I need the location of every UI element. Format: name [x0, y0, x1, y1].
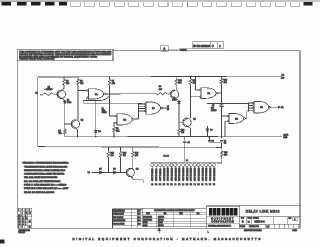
filled sprocket mark right end	[304, 2, 313, 5]
svg-text:PROD D.SMITH: PROD D.SMITH	[113, 223, 124, 225]
title block outline	[112, 209, 114, 228]
svg-text:10-9: 10-9	[138, 223, 141, 225]
svg-text:470: 470	[224, 82, 227, 84]
delay line body DL01	[151, 161, 218, 163]
svg-text:OUT 25 NSEC: OUT 25 NSEC	[152, 168, 154, 181]
resistor R2	[63, 79, 66, 85]
svg-text:C: C	[212, 44, 214, 48]
svg-text:470: 470	[159, 89, 162, 91]
wire cap link	[209, 142, 221, 144]
wire R7 bottom to E1 out node	[109, 85, 111, 94]
svg-text:L4: L4	[186, 160, 188, 162]
resistor R20	[221, 147, 223, 151]
svg-text:OUT 250 NSEC: OUT 250 NSEC	[187, 167, 189, 181]
capacitor C8	[208, 137, 210, 140]
wire D5 to R13	[178, 104, 180, 129]
svg-text:OUT 175 NSEC: OUT 175 NSEC	[175, 167, 177, 181]
svg-text:NUMBER: NUMBER	[253, 218, 259, 220]
delay line tap coil 6	[170, 163, 173, 166]
svg-text:TRANSISTOR & DIODE CONVERSION: TRANSISTOR & DIODE CONVERSION CHART	[154, 209, 196, 212]
delay line tap coil 1	[151, 163, 154, 166]
wire Q3 emitter	[175, 98, 179, 100]
wire E2 output	[134, 118, 139, 120]
nand gate E2b	[200, 89, 201, 90]
svg-text:D3: D3	[98, 131, 100, 133]
diode D5	[178, 100, 180, 103]
wire R4 down to Q2 collector	[77, 85, 79, 121]
svg-text:Q2: Q2	[81, 120, 84, 122]
sign-off grid	[131, 209, 133, 228]
svg-text:A2: A2	[151, 183, 153, 186]
svg-text:OUT 425 NSEC: OUT 425 NSEC	[214, 167, 216, 181]
svg-text:OUT 275 NSEC: OUT 275 NSEC	[191, 167, 193, 181]
wire to D7	[92, 171, 100, 173]
svg-text:OUT 125 NSEC: OUT 125 NSEC	[168, 167, 170, 181]
wire R14 down to diode node	[107, 157, 109, 172]
wire Q5 emitter	[131, 176, 133, 178]
transistor Q4	[183, 118, 192, 127]
wire E2b output	[218, 92, 221, 94]
wire R16 down to Q5 base node	[120, 157, 122, 172]
microfilm connecting line	[168, 48, 193, 51]
wire R20 to delay line end	[221, 157, 223, 164]
svg-text:750: 750	[66, 83, 69, 85]
svg-text:V2: V2	[213, 184, 215, 186]
transistor Q5	[126, 168, 134, 176]
svg-text:C2: C2	[188, 142, 190, 144]
wire Q4 emitter down	[187, 126, 190, 128]
wire R5 to mid rail	[64, 134, 66, 137]
svg-text:OUT 75 NSEC: OUT 75 NSEC	[160, 168, 162, 181]
svg-text:OUT 100 NSEC: OUT 100 NSEC	[164, 167, 166, 181]
svg-text:CODE: CODE	[248, 218, 252, 220]
wire R15 rail	[221, 76, 223, 78]
delay line tap coil 12	[193, 163, 196, 166]
DEC logo square i	[213, 208, 217, 216]
svg-text:N2: N2	[190, 184, 192, 186]
wire E4 output up to E5	[245, 117, 247, 119]
resistor R4	[77, 79, 80, 85]
svg-text:MMFD: MMFD	[211, 110, 217, 112]
svg-text:750: 750	[193, 83, 196, 85]
DEC logo square l	[234, 208, 238, 216]
corner mark	[0, 240, 5, 244]
wire R7 top	[109, 77, 111, 80]
svg-text:10-7: 10-7	[138, 214, 141, 216]
wire R4 to rail	[77, 77, 79, 79]
nand gate E1	[87, 90, 88, 91]
svg-text:i: i	[223, 210, 224, 215]
svg-text:300: 300	[111, 155, 114, 157]
wire C9 to lower rail	[221, 143, 223, 148]
diode D3	[95, 101, 97, 131]
svg-text:DIGITAL EQUIPMENT CORPORATION: DIGITAL EQUIPMENT CORPORATION · MAYNARD.…	[73, 237, 262, 241]
capacitor C2	[184, 136, 185, 137]
nand gate E2	[116, 115, 117, 116]
mid ground rail wire	[65, 135, 282, 138]
wire R12 down to Q4 collector	[190, 85, 192, 119]
svg-text:470: 470	[135, 155, 138, 157]
delay line tap coil 9	[182, 163, 185, 166]
wire R18 down to Q5 collector	[132, 157, 134, 168]
svg-text:OUT 350 NSEC: OUT 350 NSEC	[202, 167, 204, 181]
svg-text:RESISTORS ARE 1/4W; 5%: RESISTORS ARE 1/4W; 5%	[24, 169, 65, 172]
svg-text:OUT 325 NSEC: OUT 325 NSEC	[198, 167, 200, 181]
svg-text:10-8: 10-8	[138, 217, 141, 219]
svg-text:l: l	[235, 210, 236, 215]
delay line tap coil 8	[178, 163, 181, 166]
svg-text:B-DI-M310: B-DI-M310	[193, 44, 210, 48]
delay line tap coil 16	[209, 163, 212, 166]
wire to E2 input 1	[110, 115, 116, 117]
wire to E2b lower input	[191, 96, 200, 98]
wire to E1 input 1	[78, 89, 87, 91]
svg-text:TRANSISTORS ARE DEC2894B: TRANSISTORS ARE DEC2894B	[24, 165, 68, 168]
resistor R10	[175, 79, 178, 85]
wire R6 to mid rail	[113, 132, 115, 137]
diode D6	[206, 126, 208, 129]
svg-text:#3: #3	[48, 89, 50, 91]
resistor R18	[132, 147, 134, 151]
svg-text:OUT 400 NSEC: OUT 400 NSEC	[210, 167, 212, 181]
svg-text:D6: D6	[210, 130, 212, 132]
svg-text:L2: L2	[182, 184, 184, 186]
wire Q4 base	[179, 121, 184, 123]
conversion chart	[142, 208, 206, 227]
wire E4 input 2	[225, 120, 228, 122]
delay line tap coil 10	[185, 163, 188, 166]
diode D1	[64, 99, 66, 102]
microfilm drawing number strip	[193, 42, 224, 48]
node D2 output terminal	[279, 106, 281, 108]
wire E1 node to R8	[110, 93, 157, 95]
wire D6 to mid rail	[206, 131, 208, 136]
resistor R14	[107, 147, 109, 151]
delay line tap coil 17	[212, 163, 215, 166]
svg-text:PRINTED USA IN TOTAL OR IN PAR: PRINTED USA IN TOTAL OR IN PART	[19, 58, 55, 61]
delay line tap coil 5	[166, 163, 169, 166]
svg-text:P2: P2	[194, 184, 196, 186]
wire R2 top to rail	[63, 77, 65, 79]
svg-text:C2: C2	[29, 212, 31, 214]
nand gate E4	[228, 115, 229, 116]
wire Q2 base	[65, 123, 72, 125]
svg-text:M: M	[267, 225, 269, 229]
wire Q1 collector to R2	[62, 88, 64, 90]
svg-text:DEC FORM NO DRB110: DEC FORM NO DRB110	[244, 230, 262, 232]
svg-text:B: B	[22, 227, 23, 229]
svg-text:EQUIPMENT: EQUIPMENT	[211, 219, 234, 221]
resistor R5	[64, 129, 67, 134]
resistor R7	[108, 80, 111, 86]
svg-text:OUT 50 NSEC: OUT 50 NSEC	[156, 168, 158, 181]
wire Q2 emitter to mid rail	[76, 128, 78, 130]
svg-text:DI: DI	[248, 222, 251, 224]
wire rail stub to E2b upper input	[195, 76, 197, 90]
svg-text:U2: U2	[209, 184, 211, 186]
svg-text:F2: F2	[167, 184, 169, 186]
svg-text:PIN 14 ON EACH IC = +5V: PIN 14 ON EACH IC = +5V	[24, 187, 69, 190]
wire D8 to Q5 base	[116, 171, 127, 173]
svg-text:Q5: Q5	[136, 168, 139, 170]
nand gate E3	[146, 102, 161, 114]
wire E3 input taps	[139, 103, 145, 105]
node E3 input stub from bus	[141, 102, 143, 105]
svg-text:B2: B2	[155, 184, 157, 186]
wire E3 output	[162, 107, 166, 109]
svg-text:D8: D8	[113, 169, 115, 171]
wire C2 to delay line input	[184, 143, 186, 163]
svg-text:C2: C2	[22, 221, 24, 223]
+5V rail wire	[38, 75, 282, 78]
node junction R4/E1 input	[77, 90, 78, 91]
film strip top edge line	[0, 0, 320, 2]
DEC logo square g	[217, 208, 221, 216]
svg-text:CORPORATION: CORPORATION	[211, 221, 234, 224]
title section	[238, 205, 240, 228]
microfilm index box A	[161, 46, 168, 52]
svg-text:DL IS DELAY NETWORK: DL IS DELAY NETWORK	[24, 180, 61, 183]
wire D7 to D8	[102, 171, 114, 173]
svg-text:C2: C2	[18, 221, 20, 223]
hollow sprocket marks	[70, 2, 80, 6]
left return wire (vertical)	[37, 77, 39, 147]
wire D3 to mid rail	[95, 133, 97, 137]
wire R15 down through latch output	[221, 84, 223, 106]
capacitor C5	[220, 104, 224, 106]
delay line tap coil 7	[174, 163, 177, 166]
svg-text:i: i	[214, 210, 215, 215]
delay line tap coil 3	[158, 163, 161, 166]
resistor R6	[113, 123, 115, 127]
wire R13 to mid rail	[178, 134, 180, 137]
svg-text:H2: H2	[170, 184, 172, 186]
wire E4 input 1	[222, 115, 228, 117]
svg-text:OUT 150 NSEC: OUT 150 NSEC	[171, 167, 173, 181]
resistor R15	[220, 79, 223, 84]
transistor Q1	[57, 90, 66, 99]
wire E1 feedback lower input	[85, 96, 88, 98]
wire E5 output	[270, 106, 278, 108]
wire E2 input 2 from R6	[114, 122, 116, 124]
svg-text:S2: S2	[201, 184, 203, 186]
filled sprocket marks	[2, 2, 11, 5]
resistor R13	[178, 129, 181, 134]
svg-text:750: 750	[58, 133, 61, 135]
svg-text:470: 470	[224, 155, 227, 157]
svg-text:C2: C2	[25, 218, 27, 220]
svg-text:R2: R2	[197, 184, 199, 186]
svg-text:D2: D2	[159, 184, 161, 186]
resistor R16	[120, 147, 122, 151]
svg-text:J2: J2	[175, 184, 177, 186]
svg-text:6.8: 6.8	[224, 143, 227, 145]
delay line tap coil 11	[189, 163, 192, 166]
transistor Q3	[170, 90, 179, 99]
svg-text:SHEET 1 OF 1: SHEET 1 OF 1	[249, 226, 259, 228]
rev box	[293, 217, 298, 220]
lower return rail wire	[38, 146, 222, 149]
wire D1 to Q2 base node	[64, 103, 66, 129]
svg-text:UNLESS OTHERWISE INDICATED:: UNLESS OTHERWISE INDICATED:	[23, 162, 70, 165]
resistor R8	[157, 93, 167, 95]
svg-text:OUT 225 NSEC: OUT 225 NSEC	[183, 167, 185, 181]
wire R12 rail	[190, 77, 192, 80]
svg-text:OUT 300 NSEC: OUT 300 NSEC	[195, 167, 197, 181]
svg-text:10-7: 10-7	[138, 211, 141, 213]
diode D8	[114, 171, 116, 174]
wire C5 down	[221, 106, 223, 137]
svg-text:470: 470	[112, 83, 115, 85]
svg-text:750: 750	[181, 132, 184, 134]
svg-text:M2: M2	[186, 184, 188, 186]
capacitor C9	[220, 140, 223, 142]
svg-text:SIZE: SIZE	[241, 218, 244, 220]
fold arrow	[158, 229, 160, 234]
svg-text:C2: C2	[88, 172, 90, 174]
svg-text:C2: C2	[22, 224, 24, 226]
wire E5 input stack	[248, 103, 250, 111]
svg-text:D664: D664	[172, 100, 176, 102]
svg-text:DL01 IS DEC04-10050: DL01 IS DEC04-10050	[24, 192, 55, 194]
wire latch2 to E5 inputs	[207, 103, 249, 105]
resistor R12	[189, 79, 192, 85]
DEC logo square a	[230, 208, 234, 216]
DEC logo square d	[209, 208, 213, 216]
DEC logo block	[206, 206, 239, 228]
wire Q1 base	[53, 93, 58, 95]
nand gate E5	[254, 101, 269, 113]
wire E1 out node down to E2	[109, 94, 111, 116]
wire R10 to Q3 collector	[175, 85, 177, 91]
DEC logo square i	[221, 208, 225, 216]
svg-text:D664: D664	[67, 102, 71, 104]
wire feedback drop to bus	[82, 101, 84, 104]
wire R10 rail	[175, 77, 177, 80]
wire Q5 collector	[131, 168, 133, 170]
svg-text:A1: A1	[35, 91, 37, 94]
delay line tap coil 2	[155, 163, 158, 166]
svg-text:750: 750	[178, 83, 181, 85]
svg-text:OUT 375 NSEC: OUT 375 NSEC	[206, 167, 208, 181]
delay line tap coil 15	[205, 163, 208, 166]
svg-text:T2: T2	[205, 184, 207, 186]
svg-text:Q4: Q4	[193, 119, 196, 121]
svg-text:10-8: 10-8	[138, 220, 141, 222]
svg-text:DEC FORM NO: DEC FORM NO	[19, 230, 31, 232]
transistor Q2	[71, 120, 80, 129]
revision table	[17, 208, 31, 228]
copyright note box	[17, 49, 113, 60]
svg-text:GND: GND	[283, 137, 288, 139]
resistor R1	[40, 93, 53, 95]
svg-text:F1019: F1019	[293, 230, 298, 232]
svg-text:750: 750	[123, 155, 126, 157]
DEC logo square t	[225, 208, 229, 216]
wire R8 to Q3 base	[167, 93, 172, 95]
delay line tap coil 13	[197, 163, 200, 166]
wire Q1 emitter	[62, 98, 65, 100]
svg-text:M310-0-1: M310-0-1	[255, 221, 266, 224]
svg-text:DL 01: DL 01	[164, 156, 170, 158]
svg-text:E1-E4 ARE DEC7400N: E1-E4 ARE DEC7400N	[24, 176, 58, 179]
delay line tap coil 4	[162, 163, 165, 166]
svg-text:D2: D2	[281, 107, 283, 109]
node E2b lower input junction	[190, 96, 191, 97]
node E1 output junction	[109, 93, 110, 94]
svg-text:PIN 7 ON EACH IC = GND: PIN 7 ON EACH IC = GND	[24, 184, 67, 187]
svg-text:CAPACITORS ARE IN MFD: CAPACITORS ARE IN MFD	[24, 173, 65, 176]
svg-text:(1): (1)	[167, 109, 170, 111]
svg-text:C2: C2	[22, 218, 24, 220]
svg-text:OUT 200 NSEC: OUT 200 NSEC	[179, 167, 181, 181]
delay line tap coil 14	[201, 163, 204, 166]
wire E1 output	[105, 93, 109, 95]
diode D7	[100, 171, 102, 174]
svg-text:1-1(06A): 1-1(06A)	[180, 49, 187, 52]
svg-text:K2: K2	[178, 184, 180, 186]
drawing frame border	[17, 51, 300, 229]
wire cross-coupling bus	[83, 102, 142, 104]
svg-text:D7: D7	[99, 169, 101, 171]
svg-text:750: 750	[80, 83, 83, 85]
wire feedback horizontal	[83, 100, 100, 102]
node bus junction	[221, 103, 222, 104]
number row cells	[246, 217, 248, 225]
node Q4 base junction	[178, 122, 179, 123]
svg-text:C8: C8	[211, 141, 213, 143]
svg-text:E2: E2	[163, 184, 165, 186]
label R1 470	[45, 89, 46, 90]
svg-text:DELAY LINE M310: DELAY LINE M310	[246, 209, 280, 213]
